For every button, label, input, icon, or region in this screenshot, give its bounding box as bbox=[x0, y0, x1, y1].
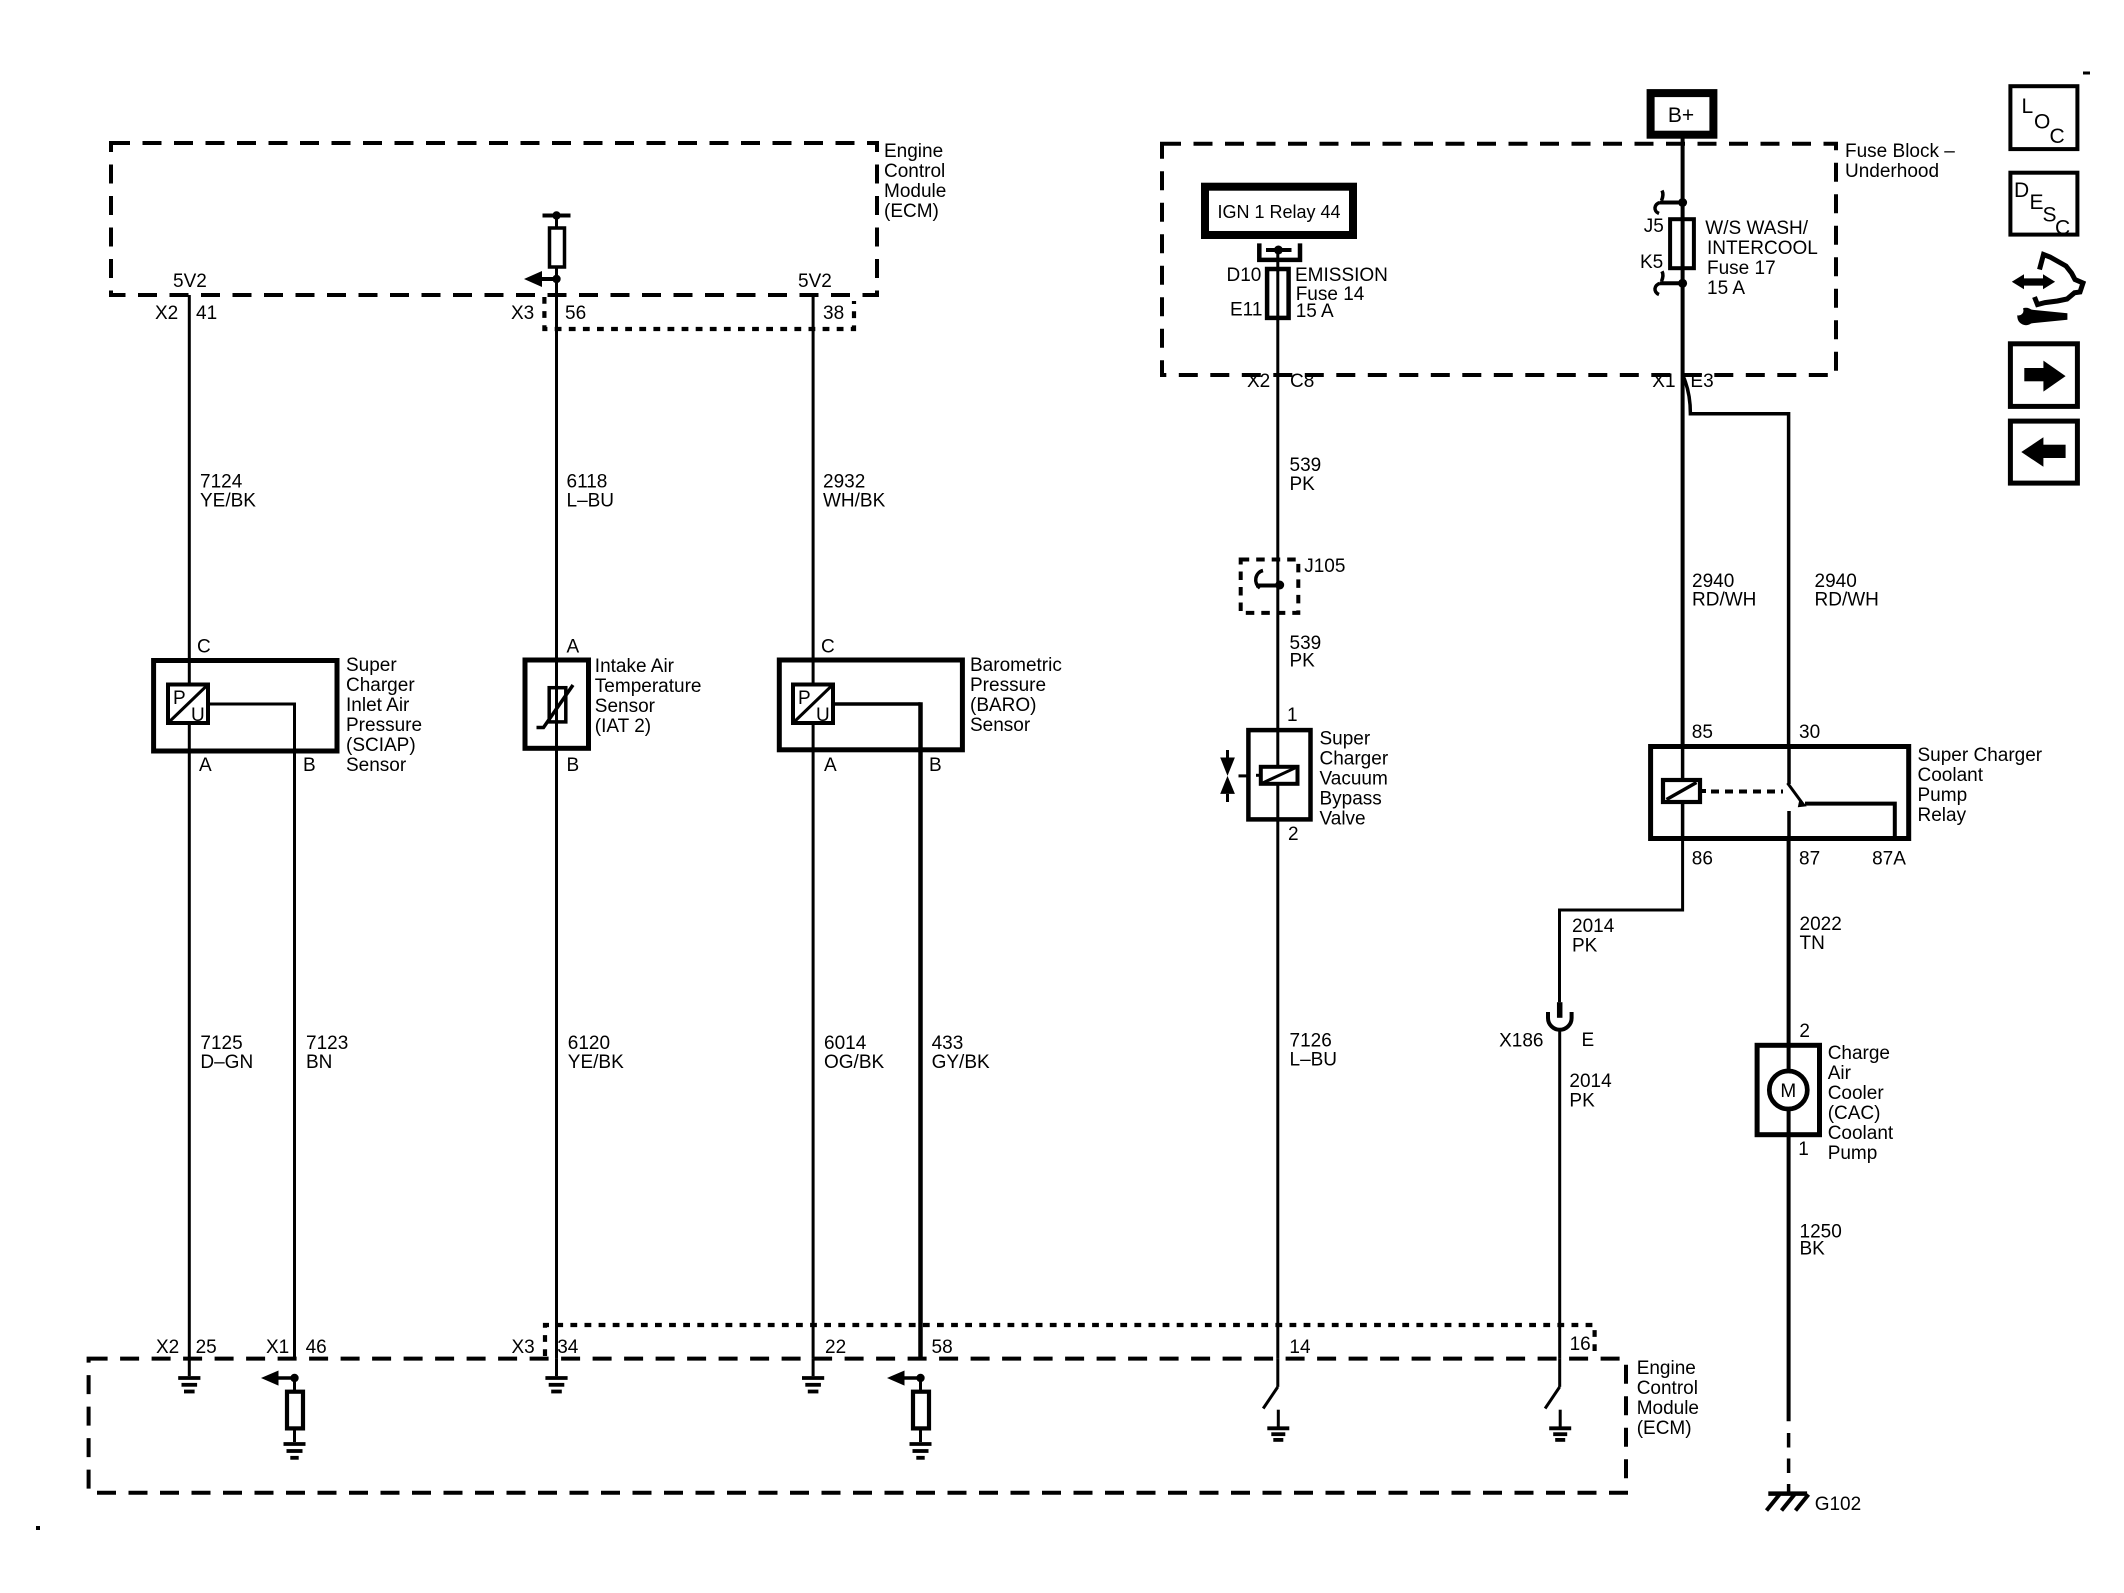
svg-text:6120: 6120 bbox=[568, 1033, 610, 1054]
svg-text:X2: X2 bbox=[155, 303, 178, 324]
svg-text:16: 16 bbox=[1570, 1334, 1591, 1355]
svg-text:E11: E11 bbox=[1230, 300, 1262, 321]
wire 6120 YE/BK bbox=[557, 722, 625, 1359]
svg-text:OG/BK: OG/BK bbox=[824, 1052, 885, 1073]
icon arrow right bbox=[2010, 344, 2077, 407]
pin label X3 34 bbox=[512, 1337, 579, 1358]
svg-text:YE/BK: YE/BK bbox=[200, 491, 256, 512]
svg-text:Bypass: Bypass bbox=[1320, 789, 1382, 810]
svg-text:WH/BK: WH/BK bbox=[823, 491, 886, 512]
svg-text:14: 14 bbox=[1289, 1337, 1311, 1358]
svg-text:87: 87 bbox=[1799, 849, 1820, 870]
wire 7123 BN bbox=[208, 704, 348, 1359]
svg-text:Pressure: Pressure bbox=[346, 715, 422, 736]
wire 539 PK (lower) bbox=[1278, 584, 1321, 819]
svg-text:(IAT 2): (IAT 2) bbox=[595, 716, 651, 737]
stray mark bottom left bbox=[36, 1526, 40, 1530]
svg-text:Relay: Relay bbox=[1918, 805, 1967, 826]
fuse W/S WASH/INTERCOOL Fuse 17 15 A bbox=[1640, 135, 1818, 747]
svg-text:A: A bbox=[824, 755, 837, 776]
svg-text:Temperature: Temperature bbox=[595, 676, 702, 697]
svg-text:41: 41 bbox=[196, 303, 217, 324]
icon DESC bbox=[2010, 173, 2077, 240]
svg-text:BN: BN bbox=[306, 1052, 332, 1073]
svg-text:7124: 7124 bbox=[200, 472, 243, 493]
wire 2014 PK (lower) bbox=[1560, 1030, 1612, 1359]
wire 6118 L-BU bbox=[557, 296, 615, 722]
svg-text:Charger: Charger bbox=[346, 675, 415, 696]
svg-text:D: D bbox=[2014, 179, 2029, 202]
svg-text:A: A bbox=[567, 637, 580, 658]
wire 7124 YE/BK bbox=[189, 295, 256, 685]
svg-text:X2: X2 bbox=[156, 1337, 179, 1358]
svg-text:Charger: Charger bbox=[1320, 749, 1389, 770]
svg-text:YE/BK: YE/BK bbox=[568, 1052, 624, 1073]
svg-text:2: 2 bbox=[1799, 1021, 1810, 1042]
svg-text:(CAC): (CAC) bbox=[1828, 1103, 1881, 1124]
Barometric Pressure (BARO) Sensor bbox=[779, 655, 1062, 750]
X3 connector dotted box (top) bbox=[544, 297, 854, 329]
svg-text:E3: E3 bbox=[1690, 371, 1713, 392]
svg-text:X3: X3 bbox=[512, 1337, 535, 1358]
resistor (ECM internal pull-up) bbox=[543, 211, 571, 296]
X3 connector dotted box (bottom) bbox=[545, 1325, 1595, 1356]
svg-text:P: P bbox=[173, 688, 186, 709]
svg-text:Valve: Valve bbox=[1320, 809, 1366, 830]
svg-text:34: 34 bbox=[557, 1337, 579, 1358]
relay coil bbox=[1663, 747, 1706, 839]
Engine Control Module (ECM) bottom box bbox=[89, 1358, 1699, 1493]
svg-text:7123: 7123 bbox=[306, 1033, 348, 1054]
svg-text:433: 433 bbox=[932, 1033, 964, 1054]
svg-text:C: C bbox=[2050, 125, 2065, 148]
svg-text:Coolant: Coolant bbox=[1918, 765, 1984, 786]
svg-text:PK: PK bbox=[1290, 474, 1316, 495]
svg-text:EMISSION: EMISSION bbox=[1295, 265, 1388, 286]
svg-text:O: O bbox=[2034, 111, 2050, 134]
arrow + resistor + ground (pin 58) bbox=[887, 1371, 932, 1458]
wire 7125 D-GN bbox=[189, 723, 253, 1359]
svg-text:(ECM): (ECM) bbox=[1637, 1418, 1692, 1439]
svg-text:Barometric: Barometric bbox=[970, 655, 1062, 676]
svg-text:(SCIAP): (SCIAP) bbox=[346, 735, 416, 756]
svg-text:Engine: Engine bbox=[884, 141, 943, 162]
pin label X3 56 bbox=[511, 303, 586, 324]
wire 539 PK (upper) bbox=[1290, 455, 1322, 495]
svg-text:22: 22 bbox=[825, 1337, 846, 1358]
wire 2932 WH/BK bbox=[813, 295, 886, 685]
arrow to other circuit (5V2 rail) bbox=[524, 271, 561, 287]
wire 2014 PK (upper) bbox=[1560, 839, 1683, 1003]
svg-text:Super: Super bbox=[346, 655, 397, 676]
svg-text:Vacuum: Vacuum bbox=[1320, 769, 1388, 790]
svg-text:Sensor: Sensor bbox=[595, 696, 656, 717]
svg-text:Charge: Charge bbox=[1828, 1043, 1890, 1064]
svg-text:G102: G102 bbox=[1815, 1494, 1861, 1515]
wire 6014 OG/BK bbox=[813, 723, 884, 1359]
svg-text:C: C bbox=[197, 637, 211, 658]
pin label X1 46 bbox=[266, 1337, 327, 1358]
wire 2940 RD/WH (right branch, to pin 30) bbox=[1684, 377, 1879, 747]
svg-text:Sensor: Sensor bbox=[970, 715, 1031, 736]
wire 7126 L-BU bbox=[1278, 819, 1337, 1358]
svg-text:5V2: 5V2 bbox=[798, 271, 832, 292]
svg-text:Inlet Air: Inlet Air bbox=[346, 695, 410, 716]
ground G102 bbox=[1767, 1494, 1862, 1515]
svg-text:Underhood: Underhood bbox=[1845, 161, 1939, 182]
svg-text:RD/WH: RD/WH bbox=[1815, 590, 1879, 611]
pin label X2 25 bbox=[156, 1337, 217, 1358]
svg-text:Intake Air: Intake Air bbox=[595, 656, 675, 677]
svg-text:1: 1 bbox=[1287, 705, 1298, 726]
wire 2940 RD/WH (left, to pin 85) bbox=[1692, 571, 1756, 611]
arrow + resistor + ground (pin 46) bbox=[261, 1371, 306, 1458]
svg-text:86: 86 bbox=[1692, 849, 1713, 870]
svg-text:X2: X2 bbox=[1247, 371, 1270, 392]
svg-text:46: 46 bbox=[306, 1337, 327, 1358]
svg-text:5V2: 5V2 bbox=[173, 271, 207, 292]
Super Charger Vacuum Bypass Valve bbox=[1248, 729, 1388, 830]
ground (pin 22) bbox=[802, 1359, 824, 1392]
splice J105 bbox=[1241, 556, 1346, 613]
svg-text:C8: C8 bbox=[1290, 371, 1314, 392]
stray mark top right bbox=[2083, 72, 2090, 75]
svg-text:BK: BK bbox=[1800, 1239, 1826, 1260]
svg-text:Air: Air bbox=[1828, 1063, 1852, 1084]
svg-text:58: 58 bbox=[932, 1337, 953, 1358]
wire 2022 TN bbox=[1789, 839, 1842, 1046]
svg-text:Module: Module bbox=[1637, 1398, 1699, 1419]
Intake Air Temperature Sensor (IAT 2) bbox=[525, 656, 701, 748]
svg-text:B+: B+ bbox=[1668, 104, 1694, 127]
relay actuation dashed link bbox=[1711, 790, 1783, 794]
svg-text:Pressure: Pressure bbox=[970, 675, 1046, 696]
relay switch (30 to 87) bbox=[1788, 747, 1895, 839]
svg-text:38: 38 bbox=[823, 303, 844, 324]
in-line connector X186 E bbox=[1499, 1002, 1594, 1051]
pin label X1 E3 bbox=[1652, 371, 1713, 392]
icon arrow left bbox=[2010, 421, 2077, 483]
svg-text:(BARO): (BARO) bbox=[970, 695, 1037, 716]
svg-text:7125: 7125 bbox=[200, 1033, 242, 1054]
svg-text:B: B bbox=[303, 755, 316, 776]
svg-text:C: C bbox=[2055, 217, 2070, 240]
svg-text:2014: 2014 bbox=[1572, 916, 1615, 937]
svg-text:U: U bbox=[816, 705, 830, 726]
svg-text:PK: PK bbox=[1290, 651, 1316, 672]
svg-text:87A: 87A bbox=[1872, 849, 1906, 870]
svg-text:IGN 1 Relay 44: IGN 1 Relay 44 bbox=[1217, 202, 1340, 222]
svg-text:J5: J5 bbox=[1644, 216, 1664, 237]
svg-text:2932: 2932 bbox=[823, 472, 865, 493]
svg-text:15 A: 15 A bbox=[1707, 278, 1745, 299]
svg-text:30: 30 bbox=[1799, 722, 1820, 743]
svg-text:D–GN: D–GN bbox=[200, 1052, 253, 1073]
svg-text:Super: Super bbox=[1320, 729, 1371, 750]
fuse EMISSION Fuse 14 15 A bbox=[1227, 250, 1388, 584]
valve symbol (bowtie) bbox=[1220, 750, 1248, 802]
svg-text:6014: 6014 bbox=[824, 1033, 867, 1054]
svg-text:TN: TN bbox=[1800, 933, 1825, 954]
svg-text:15 A: 15 A bbox=[1296, 301, 1334, 322]
relay output bus (cup) bbox=[1259, 243, 1300, 260]
svg-text:X1: X1 bbox=[266, 1337, 289, 1358]
svg-text:Fuse 17: Fuse 17 bbox=[1707, 258, 1776, 279]
switch + ground (pin 14) bbox=[1263, 1359, 1289, 1440]
svg-text:RD/WH: RD/WH bbox=[1692, 590, 1756, 611]
svg-text:C: C bbox=[821, 637, 835, 658]
svg-text:2022: 2022 bbox=[1800, 914, 1842, 935]
svg-text:Control: Control bbox=[884, 161, 945, 182]
svg-text:L–BU: L–BU bbox=[567, 491, 615, 512]
wire 1250 BK bbox=[1789, 1135, 1842, 1493]
ground (pin 34) bbox=[545, 1359, 567, 1392]
svg-text:Sensor: Sensor bbox=[346, 755, 407, 776]
svg-text:Pump: Pump bbox=[1918, 785, 1968, 806]
svg-text:P: P bbox=[798, 688, 811, 709]
svg-text:Coolant: Coolant bbox=[1828, 1123, 1894, 1144]
svg-text:M: M bbox=[1780, 1081, 1796, 1102]
switch + ground (pin 16) bbox=[1545, 1359, 1571, 1440]
svg-text:6118: 6118 bbox=[567, 472, 608, 493]
svg-text:Engine: Engine bbox=[1637, 1358, 1696, 1379]
svg-text:X1: X1 bbox=[1652, 371, 1675, 392]
svg-text:E: E bbox=[2030, 191, 2044, 214]
svg-text:J105: J105 bbox=[1304, 556, 1345, 577]
icon LOC bbox=[2010, 86, 2077, 149]
pin label X2 41 bbox=[155, 303, 217, 324]
svg-text:Pump: Pump bbox=[1828, 1143, 1878, 1164]
svg-text:539: 539 bbox=[1290, 455, 1322, 476]
svg-text:2014: 2014 bbox=[1569, 1071, 1612, 1092]
svg-text:Super Charger: Super Charger bbox=[1918, 745, 2043, 766]
svg-text:E: E bbox=[1582, 1030, 1595, 1051]
ground (pin 25) bbox=[178, 1359, 200, 1392]
svg-text:L: L bbox=[2022, 95, 2034, 118]
svg-text:7126: 7126 bbox=[1290, 1031, 1332, 1052]
wire 433 GY/BK (heavy) bbox=[833, 702, 990, 1358]
svg-text:INTERCOOL: INTERCOOL bbox=[1707, 238, 1818, 259]
svg-text:D10: D10 bbox=[1227, 265, 1262, 286]
IGN 1 Relay 44 box bbox=[1205, 187, 1353, 235]
terminal J5 bbox=[1655, 191, 1687, 214]
svg-text:PK: PK bbox=[1572, 936, 1598, 957]
svg-text:Control: Control bbox=[1637, 1378, 1698, 1399]
Super Charger Coolant Pump Relay bbox=[1651, 745, 2043, 839]
Charge Air Cooler (CAC) Coolant Pump bbox=[1757, 1043, 1894, 1164]
svg-text:25: 25 bbox=[196, 1337, 217, 1358]
svg-text:(ECM): (ECM) bbox=[884, 201, 939, 222]
svg-text:Fuse Block –: Fuse Block – bbox=[1845, 141, 1955, 162]
svg-text:L–BU: L–BU bbox=[1290, 1050, 1338, 1071]
svg-text:PK: PK bbox=[1569, 1091, 1595, 1112]
Super Charger Inlet Air Pressure (SCIAP) Sensor bbox=[154, 655, 422, 776]
svg-text:X3: X3 bbox=[511, 303, 534, 324]
icon car with arrow and wrench bbox=[2012, 255, 2083, 326]
svg-text:U: U bbox=[191, 705, 205, 726]
svg-text:B: B bbox=[567, 755, 580, 776]
Engine Control Module (ECM) top box bbox=[111, 141, 946, 295]
svg-text:Module: Module bbox=[884, 181, 946, 202]
svg-text:GY/BK: GY/BK bbox=[932, 1052, 990, 1073]
Fuse Block - Underhood box bbox=[1162, 141, 1955, 375]
svg-text:W/S WASH/: W/S WASH/ bbox=[1705, 218, 1808, 239]
svg-text:2: 2 bbox=[1288, 824, 1299, 845]
pin label X2 C8 bbox=[1247, 371, 1314, 392]
terminal K5 bbox=[1655, 271, 1687, 294]
B+ terminal bbox=[1651, 93, 1714, 135]
svg-text:56: 56 bbox=[565, 303, 586, 324]
svg-text:K5: K5 bbox=[1640, 252, 1663, 273]
svg-text:A: A bbox=[199, 755, 212, 776]
svg-text:1: 1 bbox=[1798, 1139, 1809, 1160]
svg-text:X186: X186 bbox=[1499, 1031, 1543, 1052]
svg-text:B: B bbox=[929, 755, 942, 776]
svg-text:Cooler: Cooler bbox=[1828, 1083, 1885, 1104]
svg-text:85: 85 bbox=[1692, 722, 1713, 743]
